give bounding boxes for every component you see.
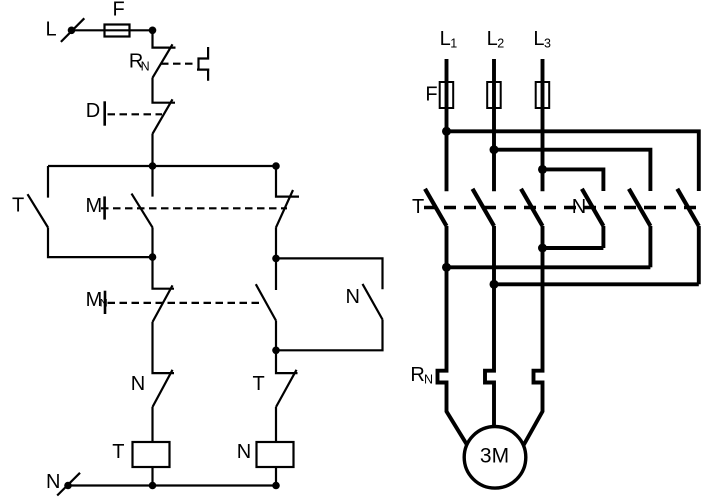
svg-text:L: L — [487, 28, 498, 50]
svg-text:N: N — [572, 196, 586, 218]
svg-text:2: 2 — [497, 36, 504, 50]
svg-text:N: N — [237, 441, 251, 463]
svg-text:D: D — [86, 100, 100, 122]
svg-text:T: T — [12, 195, 24, 217]
svg-text:T: T — [112, 441, 124, 463]
svg-text:R: R — [410, 364, 424, 386]
svg-text:1: 1 — [450, 36, 457, 50]
svg-text:T: T — [412, 196, 424, 218]
svg-text:L: L — [46, 18, 57, 40]
svg-text:L: L — [440, 28, 451, 50]
svg-text:N: N — [46, 471, 60, 493]
svg-text:F: F — [113, 0, 125, 21]
svg-text:N: N — [131, 373, 145, 395]
svg-text:L: L — [533, 28, 544, 50]
svg-text:3: 3 — [544, 36, 551, 50]
svg-text:T: T — [253, 373, 265, 395]
svg-text:N: N — [100, 298, 108, 310]
svg-text:N: N — [141, 60, 150, 74]
svg-text:N: N — [424, 373, 433, 387]
svg-text:N: N — [346, 286, 360, 308]
svg-text:M: M — [86, 195, 103, 217]
svg-text:3M: 3M — [480, 445, 509, 468]
svg-text:F: F — [425, 84, 437, 106]
